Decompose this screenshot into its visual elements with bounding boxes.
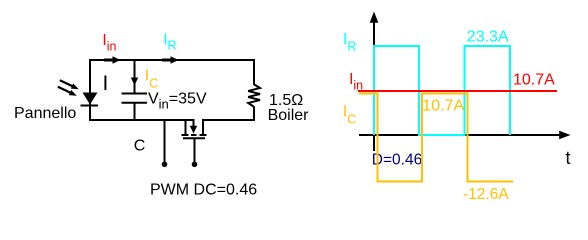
graph horizontal axis t (359, 131, 571, 140)
svg-text:IR: IR (343, 31, 356, 54)
resistor R 1.5 ohm zigzag (248, 84, 260, 106)
svg-text:Vin=35V: Vin=35V (148, 91, 207, 112)
arrow current Iin on top rail (104, 56, 121, 64)
wire PWM reference terminal (164, 120, 166, 163)
wire capacitor branch (134, 59, 136, 93)
svg-text:Iin: Iin (102, 32, 116, 53)
svg-text:IR: IR (163, 31, 176, 52)
arrow current IR on top rail (162, 56, 179, 64)
svg-text:Iin: Iin (349, 71, 363, 92)
bulk arrow vertical (193, 119, 195, 127)
node PWM terminal dot left (162, 162, 168, 168)
svg-text:IC: IC (343, 104, 356, 127)
wire top rail (89, 59, 255, 61)
svg-text:t: t (566, 148, 571, 168)
wire bottom rail right (203, 119, 255, 121)
gate wire down (194, 138, 196, 162)
svg-text:Boiler: Boiler (268, 107, 310, 124)
svg-text:PWM DC=0.46: PWM DC=0.46 (150, 181, 257, 198)
svg-text:10.7A: 10.7A (513, 72, 555, 89)
bulk foot (191, 134, 197, 136)
light arrow 2 into panel (58, 87, 77, 96)
wire right branch upper (to resistor) (253, 59, 255, 85)
svg-text:I: I (103, 72, 109, 95)
svg-text:D=0.46: D=0.46 (372, 152, 422, 169)
transistor Q1 (MOSFET switch) (182, 119, 207, 163)
svg-text:23.3A: 23.3A (467, 29, 509, 46)
arrow current IC on capacitor branch (131, 78, 138, 86)
photodiode panel (triangle + bar) (81, 93, 99, 106)
wire capacitor to bottom rail (134, 103, 136, 121)
wire bottom rail left (89, 119, 194, 121)
graph vertical axis (370, 12, 379, 152)
drain foot (200, 134, 207, 136)
gate bar (183, 137, 205, 139)
source vertical (185, 119, 187, 134)
svg-text:IC: IC (145, 67, 158, 90)
node PWM terminal dot right (gate) (192, 162, 198, 168)
svg-text:C: C (134, 138, 146, 155)
svg-text:10.7A: 10.7A (422, 98, 464, 115)
wire left branch (panel) (89, 59, 91, 121)
wire right branch lower (253, 107, 255, 122)
waveform IR cyan square wave (374, 46, 510, 135)
waveform IC orange square wave (359, 94, 513, 182)
drain vertical (202, 119, 204, 134)
source foot (182, 134, 189, 136)
svg-text:Pannello: Pannello (14, 105, 76, 122)
svg-text:-12.6A: -12.6A (463, 186, 509, 203)
capacitor C plates (122, 94, 148, 103)
light arrow 1 into panel (60, 80, 79, 89)
waveform Iin red line (358, 90, 557, 92)
